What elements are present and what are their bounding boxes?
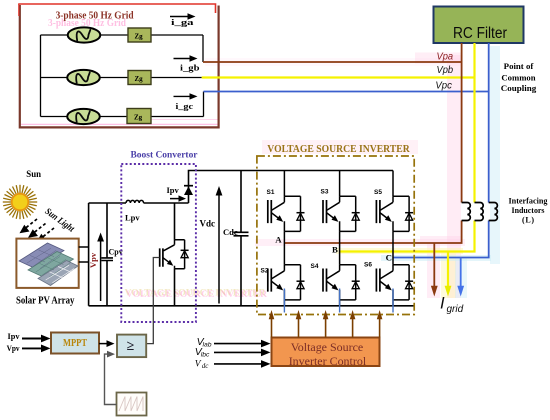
svg-text:Zg: Zg: [134, 113, 143, 121]
svg-text:S1: S1: [267, 189, 275, 196]
svg-text:RC Filter: RC Filter: [453, 25, 507, 42]
svg-text:Lpv: Lpv: [125, 213, 140, 223]
svg-text:A: A: [275, 235, 282, 245]
svg-text:Vpc: Vpc: [435, 80, 452, 92]
svg-text:MPPT: MPPT: [63, 338, 87, 349]
svg-text:C: C: [386, 253, 392, 263]
svg-text:Vdc: Vdc: [200, 219, 216, 229]
svg-text:i_gb: i_gb: [180, 63, 200, 72]
svg-text:Solar PV Array: Solar PV Array: [16, 295, 74, 306]
svg-text:dc: dc: [202, 362, 210, 370]
svg-text:(L): (L): [522, 216, 534, 225]
svg-text:i_ga: i_ga: [171, 18, 194, 27]
svg-text:Point of: Point of: [504, 62, 534, 71]
svg-text:VOLTAGE SOURCE INVERTER: VOLTAGE SOURCE INVERTER: [267, 143, 410, 155]
svg-text:Boost Convertor: Boost Convertor: [131, 150, 198, 160]
svg-text:Inductors: Inductors: [512, 206, 545, 215]
svg-text:Vpb: Vpb: [437, 64, 454, 76]
svg-text:S2: S2: [261, 268, 269, 275]
svg-text:Sun Light: Sun Light: [43, 207, 76, 235]
svg-text:Vpv: Vpv: [7, 343, 21, 353]
svg-text:Interfacing: Interfacing: [509, 197, 548, 206]
svg-text:B: B: [332, 245, 338, 255]
svg-text:i_gc: i_gc: [176, 102, 194, 111]
svg-text:Ipv: Ipv: [167, 185, 180, 195]
svg-text:lbc: lbc: [201, 352, 210, 359]
svg-text:Voltage Source: Voltage Source: [291, 340, 364, 354]
svg-text:lab: lab: [203, 342, 212, 349]
svg-text:S6: S6: [364, 262, 372, 269]
svg-text:Vpv: Vpv: [88, 252, 98, 268]
svg-text:S4: S4: [311, 263, 319, 270]
svg-text:3-phase 50 Hz Grid: 3-phase 50 Hz Grid: [56, 11, 134, 22]
svg-text:S3: S3: [321, 189, 329, 196]
svg-text:Common: Common: [501, 73, 536, 82]
svg-text:≥: ≥: [127, 339, 135, 354]
svg-text:Inverter Control: Inverter Control: [289, 354, 367, 368]
svg-text:grid: grid: [447, 304, 464, 315]
svg-text:I: I: [440, 295, 445, 313]
svg-text:Ipv: Ipv: [8, 331, 21, 341]
svg-text:Coupling: Coupling: [501, 84, 536, 93]
svg-text:Vpa: Vpa: [437, 51, 454, 63]
svg-text:Zg: Zg: [135, 75, 144, 83]
svg-text:Sun: Sun: [26, 170, 41, 180]
svg-text:Cdc: Cdc: [223, 227, 238, 237]
svg-text:S5: S5: [374, 189, 382, 196]
svg-text:Zg: Zg: [135, 32, 144, 40]
